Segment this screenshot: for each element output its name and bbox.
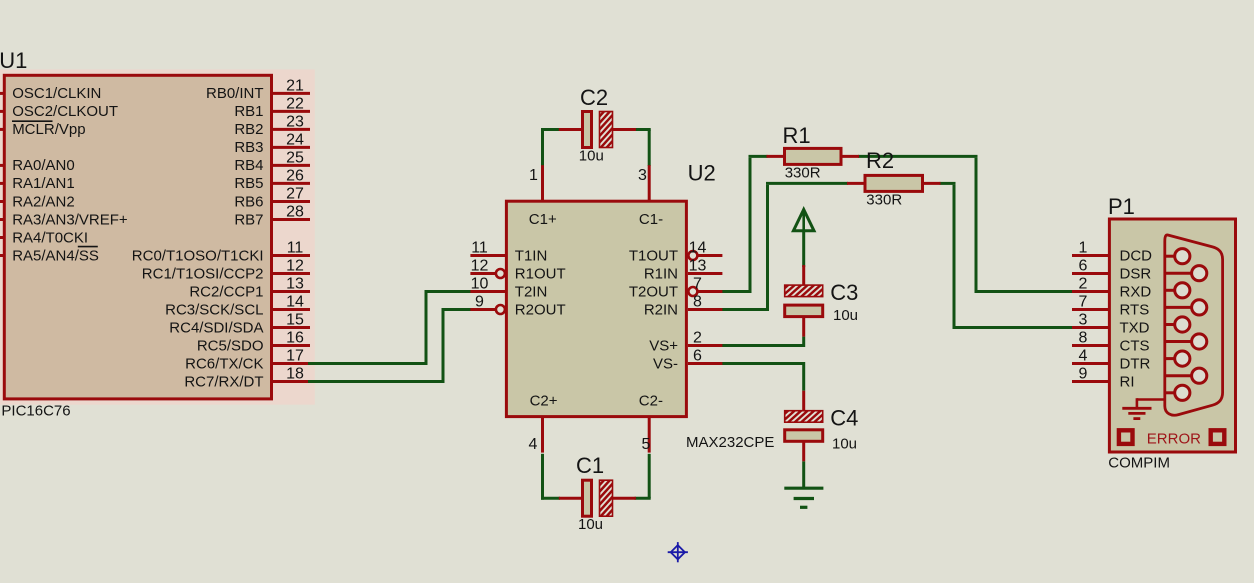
svg-text:DSR: DSR (1120, 266, 1152, 283)
svg-text:C4: C4 (830, 406, 858, 431)
svg-text:RC3/SCK/SCL: RC3/SCK/SCL (165, 301, 263, 318)
svg-text:4: 4 (529, 436, 538, 453)
svg-text:23: 23 (286, 113, 304, 130)
svg-text:13: 13 (286, 276, 304, 293)
svg-text:10: 10 (471, 276, 489, 293)
svg-text:R1OUT: R1OUT (515, 265, 566, 282)
svg-text:12: 12 (286, 258, 304, 275)
svg-text:C2: C2 (580, 85, 608, 110)
svg-text:OSC1/CLKIN: OSC1/CLKIN (12, 85, 101, 102)
svg-text:4: 4 (1079, 348, 1088, 365)
svg-text:ERROR: ERROR (1147, 430, 1201, 447)
svg-text:25: 25 (286, 149, 304, 166)
svg-text:11: 11 (287, 240, 304, 257)
svg-text:C2+: C2+ (530, 392, 558, 409)
svg-text:T1IN: T1IN (515, 247, 548, 264)
svg-text:11: 11 (471, 240, 488, 257)
svg-text:12: 12 (471, 258, 489, 275)
svg-text:26: 26 (286, 167, 304, 184)
svg-text:10u: 10u (579, 147, 604, 164)
svg-text:DCD: DCD (1120, 248, 1153, 265)
svg-text:2: 2 (1079, 276, 1088, 293)
svg-text:RC2/CCP1: RC2/CCP1 (189, 283, 263, 300)
svg-text:330R: 330R (866, 192, 902, 209)
svg-text:C1: C1 (576, 453, 604, 478)
svg-text:RA3/AN3/VREF+: RA3/AN3/VREF+ (12, 211, 128, 228)
svg-text:DTR: DTR (1120, 356, 1151, 373)
svg-text:RA2/AN2: RA2/AN2 (12, 193, 75, 210)
svg-text:RC5/SDO: RC5/SDO (197, 337, 264, 354)
svg-text:U2: U2 (688, 160, 716, 185)
svg-text:14: 14 (689, 240, 707, 257)
svg-text:MCLR/Vpp: MCLR/Vpp (12, 121, 85, 138)
svg-text:24: 24 (286, 131, 304, 148)
svg-text:R1IN: R1IN (644, 265, 678, 282)
svg-text:OSC2/CLKOUT: OSC2/CLKOUT (12, 103, 118, 120)
svg-text:13: 13 (689, 258, 707, 275)
svg-text:RB6: RB6 (234, 193, 263, 210)
svg-text:2: 2 (693, 330, 702, 347)
svg-text:22: 22 (286, 95, 304, 112)
svg-text:15: 15 (286, 312, 304, 329)
svg-text:RC1/T1OSI/CCP2: RC1/T1OSI/CCP2 (142, 265, 264, 282)
svg-text:C1+: C1+ (529, 211, 557, 228)
svg-text:27: 27 (286, 186, 304, 203)
svg-text:P1: P1 (1108, 194, 1135, 219)
svg-text:14: 14 (286, 294, 304, 311)
svg-text:COMPIM: COMPIM (1108, 455, 1170, 472)
svg-text:6: 6 (1079, 258, 1088, 275)
svg-text:10u: 10u (833, 307, 858, 324)
svg-text:1: 1 (1079, 240, 1088, 257)
svg-text:7: 7 (693, 276, 702, 293)
svg-text:RI: RI (1120, 374, 1135, 391)
svg-text:VS-: VS- (653, 355, 678, 372)
svg-text:RB3: RB3 (234, 139, 263, 156)
svg-text:R1: R1 (783, 123, 811, 148)
svg-text:C3: C3 (830, 280, 858, 305)
svg-text:R2IN: R2IN (644, 301, 678, 318)
svg-text:T2IN: T2IN (515, 283, 548, 300)
svg-text:9: 9 (1079, 366, 1088, 383)
svg-text:18: 18 (286, 366, 304, 383)
svg-text:RA5/AN4/SS: RA5/AN4/SS (12, 247, 99, 264)
svg-text:T2OUT: T2OUT (629, 283, 678, 300)
svg-text:RA4/T0CKI: RA4/T0CKI (12, 229, 88, 246)
svg-text:R2OUT: R2OUT (515, 301, 566, 318)
svg-text:21: 21 (286, 77, 304, 94)
svg-text:330R: 330R (785, 164, 821, 181)
svg-text:7: 7 (1079, 294, 1088, 311)
svg-text:RB7: RB7 (234, 211, 263, 228)
svg-text:CTS: CTS (1120, 338, 1150, 355)
svg-text:28: 28 (286, 204, 304, 221)
svg-text:U1: U1 (0, 48, 27, 73)
svg-text:RXD: RXD (1120, 284, 1152, 301)
svg-text:5: 5 (642, 436, 651, 453)
svg-text:8: 8 (1079, 330, 1088, 347)
svg-text:RB1: RB1 (234, 103, 263, 120)
svg-text:R2: R2 (866, 148, 894, 173)
svg-text:RC4/SDI/SDA: RC4/SDI/SDA (169, 319, 263, 336)
svg-text:RB0/INT: RB0/INT (206, 85, 264, 102)
svg-text:RTS: RTS (1120, 302, 1150, 319)
svg-text:C1-: C1- (639, 211, 663, 228)
svg-text:RA0/AN0: RA0/AN0 (12, 157, 75, 174)
svg-text:VS+: VS+ (649, 337, 678, 354)
svg-text:3: 3 (1079, 312, 1088, 329)
svg-text:RC0/T1OSO/T1CKI: RC0/T1OSO/T1CKI (132, 247, 264, 264)
svg-text:10u: 10u (832, 435, 857, 452)
svg-text:17: 17 (286, 348, 304, 365)
svg-text:RB4: RB4 (234, 157, 263, 174)
svg-text:T1OUT: T1OUT (629, 247, 678, 264)
svg-text:PIC16C76: PIC16C76 (1, 402, 70, 419)
svg-text:3: 3 (638, 167, 647, 184)
svg-text:RC6/TX/CK: RC6/TX/CK (185, 355, 263, 372)
svg-text:RB5: RB5 (234, 175, 263, 192)
svg-text:RC7/RX/DT: RC7/RX/DT (184, 373, 263, 390)
svg-text:10u: 10u (578, 516, 603, 533)
svg-text:C2-: C2- (639, 392, 663, 409)
svg-text:16: 16 (286, 330, 304, 347)
svg-text:8: 8 (693, 294, 702, 311)
svg-text:9: 9 (475, 294, 484, 311)
svg-text:RA1/AN1: RA1/AN1 (12, 175, 75, 192)
svg-text:RB2: RB2 (234, 121, 263, 138)
svg-text:6: 6 (693, 348, 702, 365)
svg-text:1: 1 (529, 167, 538, 184)
svg-text:TXD: TXD (1120, 320, 1150, 337)
svg-text:MAX232CPE: MAX232CPE (686, 434, 774, 451)
